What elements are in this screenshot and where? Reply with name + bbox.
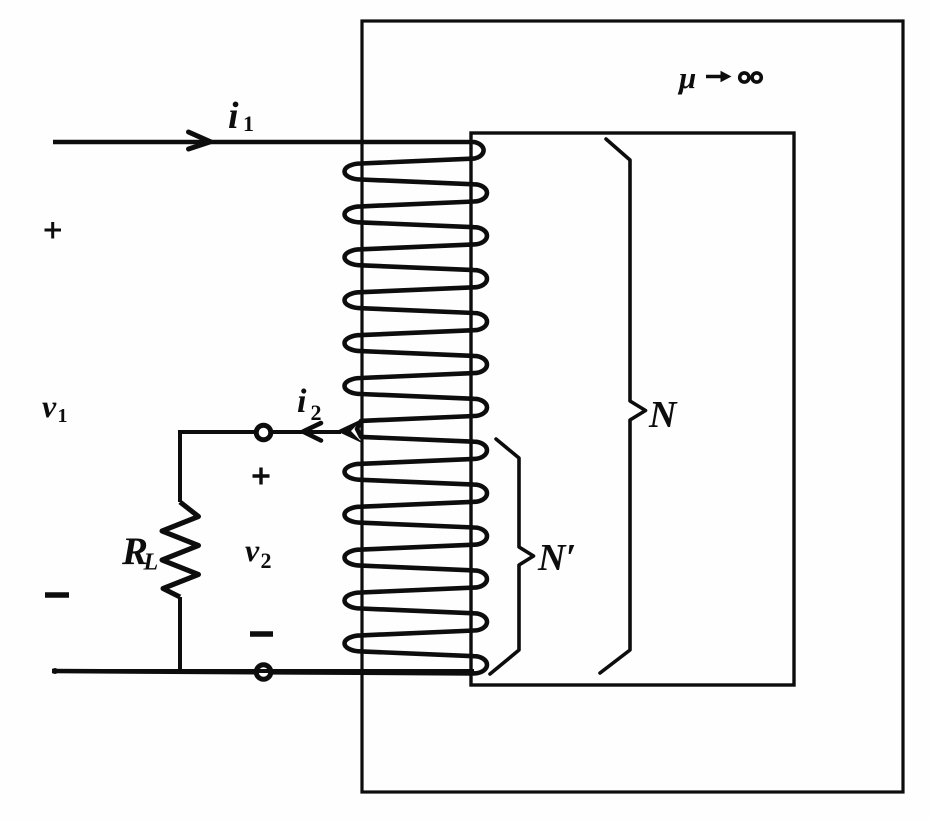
brace N (full winding) — [600, 139, 646, 673]
core window inner boundary — [471, 133, 794, 685]
wire: top input lead v1+ to coil top — [53, 140, 474, 144]
svg-text:1: 1 — [58, 405, 68, 427]
brace N' (tapped winding) — [490, 439, 534, 674]
label - (v2) — [250, 631, 273, 637]
svg-text:i: i — [297, 383, 307, 420]
core outer boundary — [362, 21, 903, 792]
terminal node bottom (v2 -) — [256, 665, 271, 680]
wire: tap node down-lead — [178, 430, 182, 502]
tap wire from coil to load node — [180, 430, 341, 434]
arrow i1 on top wire — [189, 132, 211, 149]
label + (v2) — [253, 468, 270, 485]
label - (v1) — [45, 592, 69, 598]
terminal node top (v2 +) — [256, 425, 271, 440]
label + (v1) — [45, 222, 62, 239]
svg-text:v: v — [245, 532, 260, 568]
solid arrow at coil tap junction — [337, 419, 364, 444]
wire: bottom lead v1- to coil bottom — [52, 668, 58, 674]
wire: resistor bottom lead — [178, 597, 182, 672]
arrow i2 on tap wire — [303, 423, 321, 441]
coil winding N turns on left core leg — [52, 142, 487, 673]
svg-text:v: v — [42, 388, 57, 424]
svg-text:1: 1 — [243, 111, 254, 136]
svg-text:μ: μ — [677, 60, 696, 95]
svg-text:N′: N′ — [537, 537, 576, 579]
svg-text:L: L — [143, 550, 159, 576]
svg-text:N: N — [648, 394, 678, 436]
resistor RL zigzag — [162, 502, 199, 597]
svg-text:2: 2 — [261, 548, 272, 573]
svg-text:i: i — [228, 95, 239, 137]
svg-text:2: 2 — [311, 400, 322, 425]
